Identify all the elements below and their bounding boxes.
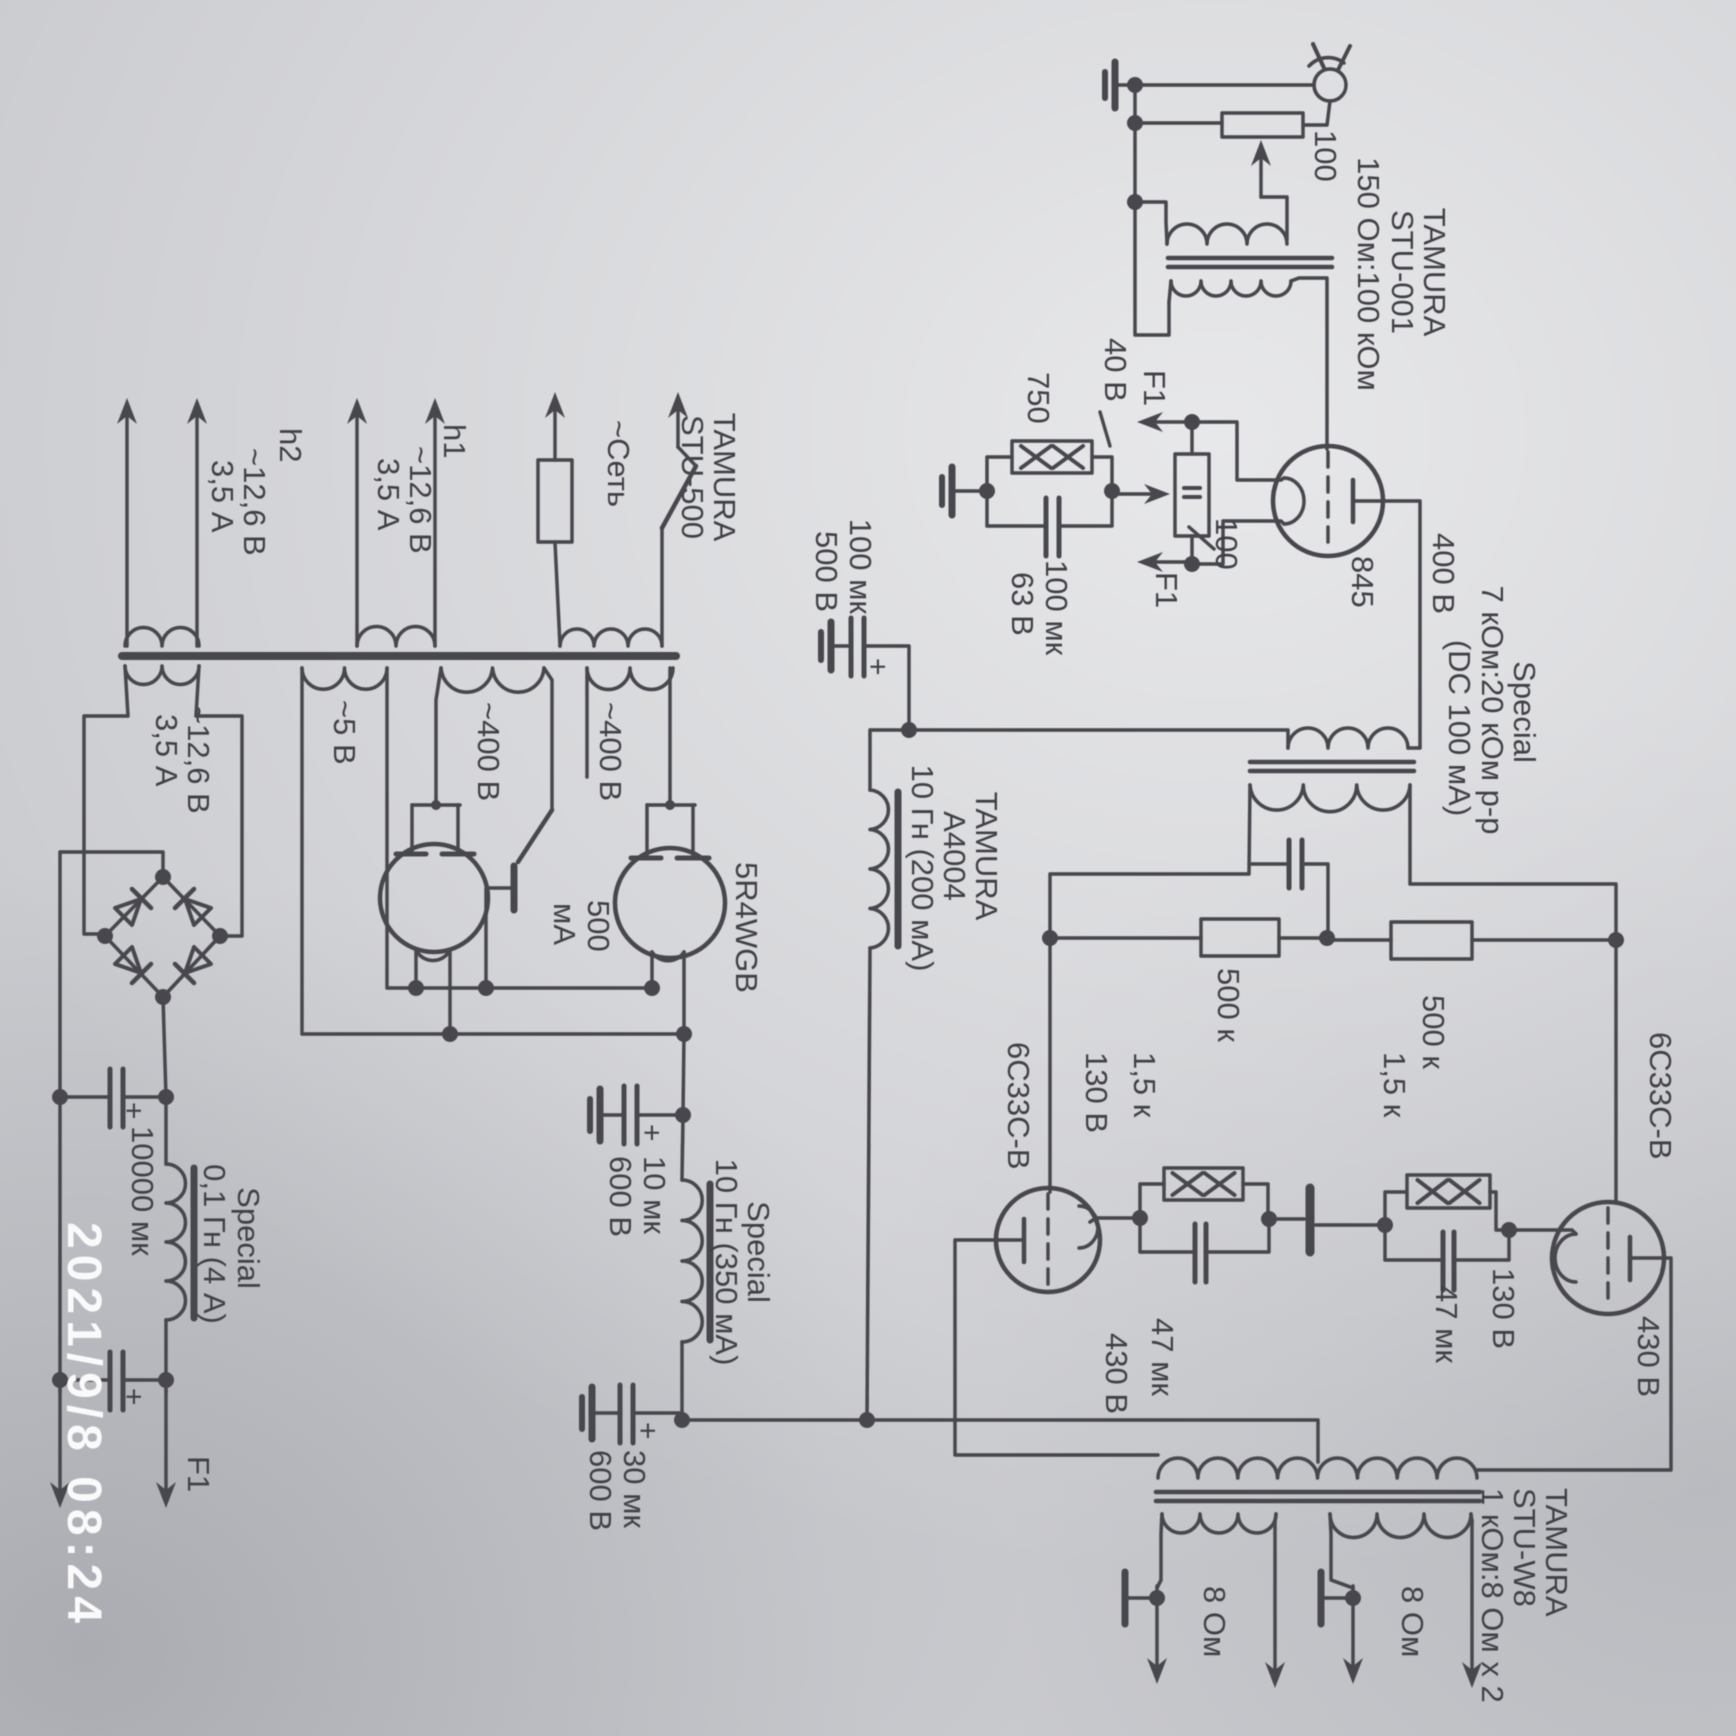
845 cathode bias network node <box>1104 483 1120 499</box>
bridge rectifier diamond <box>105 877 220 997</box>
label 100 (hum pot) with leader <box>1189 527 1214 549</box>
T3 primary winding <box>1158 1458 1477 1478</box>
capacitor 10uF 600V <box>637 1113 683 1117</box>
V5 plates <box>677 856 709 861</box>
svg-text:130 В: 130 В <box>1079 1052 1114 1133</box>
svg-text:TAMURA: TAMURA <box>707 413 742 542</box>
power transformer T4 TAMURA STU-500 core <box>122 652 676 660</box>
V2 anode <box>1628 1237 1633 1280</box>
V2 cathode <box>1555 1234 1576 1282</box>
input transformer T1 TAMURA STU-001 core <box>1168 256 1332 261</box>
cathode resistor 1.5k (V3) <box>1140 1184 1164 1218</box>
output tube V2 6C33C-B (upper) <box>1552 1202 1664 1314</box>
svg-text:8 Ом: 8 Ом <box>1395 1586 1430 1657</box>
HV select switch <box>585 668 589 777</box>
cathode resistor 1.5k (V2) <box>1490 1192 1509 1230</box>
wire V3 anode to OT primary bottom <box>955 1240 1158 1455</box>
cathode capacitor 47uF (V2) <box>1385 1225 1443 1260</box>
V4 plates <box>442 852 474 857</box>
ground (B+ cap) <box>832 644 851 648</box>
choke L1 TAMURA A4004 <box>870 730 909 790</box>
svg-text:30 мк: 30 мк <box>617 1450 652 1528</box>
svg-text:+: + <box>117 1102 150 1120</box>
bridge diode D4 <box>115 899 141 925</box>
svg-text:8 Ом: 8 Ом <box>1197 1586 1232 1657</box>
cathode capacitor 47uF (V3) <box>1140 1218 1195 1252</box>
T4 5V rectifier filament winding <box>302 668 387 689</box>
T4 12.6V winding (845 filament bridge) <box>125 666 199 685</box>
V5 filament <box>652 952 684 961</box>
svg-text:~5 В: ~5 В <box>327 700 362 765</box>
output return secondary A <box>1157 1514 1162 1588</box>
svg-text:63 В: 63 В <box>1005 572 1040 636</box>
mains switch <box>660 528 664 646</box>
svg-text:100 мк: 100 мк <box>843 519 878 615</box>
T4 HV secondary 1 ~400V <box>587 668 673 690</box>
svg-text:+: + <box>861 658 894 676</box>
svg-text:+: + <box>631 1422 664 1440</box>
capacitor (second filter) <box>123 1378 166 1382</box>
T4 heater winding h1 <box>357 627 435 647</box>
svg-text:Special: Special <box>231 1187 266 1289</box>
T3 secondary A (lower) <box>1162 1514 1276 1533</box>
T4 heater winding h2 <box>125 628 199 647</box>
V4 filament legs to buses <box>448 950 452 1034</box>
svg-text:~400 В: ~400 В <box>471 702 506 801</box>
capacitor 100uF 500V <box>864 646 909 730</box>
ground (input common) <box>1116 83 1135 87</box>
T3 secondary B (upper) <box>1330 1514 1471 1538</box>
svg-text:1 кОм:8 Ом х 2: 1 кОм:8 Ом х 2 <box>1475 1488 1510 1703</box>
F1 filament supply arrow (right) <box>1143 560 1192 564</box>
svg-text:7 кОм:20 кОм р-р: 7 кОм:20 кОм р-р <box>1475 586 1510 835</box>
wire V1 anode to interstage primary <box>1384 501 1420 748</box>
T1 secondary winding <box>1171 281 1291 296</box>
wire jack to volume pot <box>1303 101 1330 125</box>
bridge rectifier wires from winding <box>196 666 242 936</box>
V3 cathode lead <box>1090 1218 1140 1222</box>
V4 plate feed from winding <box>436 668 441 805</box>
ground (secondary B) <box>1324 1596 1353 1600</box>
svg-text:~12,6 В: ~12,6 В <box>181 706 216 814</box>
T4 mains primary winding <box>560 629 662 646</box>
common bus wire <box>1135 85 1314 335</box>
svg-text:600 В: 600 В <box>583 1450 618 1531</box>
bridge diode D1 <box>185 947 211 973</box>
ground (30uF) <box>589 1387 596 1439</box>
choke L2 Special 10Gn 350mA <box>682 1180 702 1342</box>
V1 filament <box>1284 478 1304 524</box>
svg-text:600 В: 600 В <box>603 1156 638 1237</box>
V5 filament leg to bus A <box>650 952 654 988</box>
wire pot bottom to common bus <box>1135 121 1222 125</box>
svg-text:430 В: 430 В <box>1631 1316 1666 1397</box>
svg-text:STU-W8: STU-W8 <box>1507 1488 1542 1607</box>
node X dot <box>1319 930 1335 946</box>
svg-text:750: 750 <box>1021 372 1056 424</box>
svg-text:100: 100 <box>1209 518 1244 570</box>
svg-text:6С33С-В: 6С33С-В <box>1643 1032 1678 1160</box>
svg-text:мА: мА <box>547 903 582 945</box>
svg-text:430 В: 430 В <box>1099 1333 1134 1414</box>
svg-text:500 В: 500 В <box>809 531 844 612</box>
wire T2 primary bottom to B+ node <box>909 730 1288 748</box>
T2 secondary bottom lead / tube2 grid wire <box>1050 785 1250 1192</box>
svg-text:STU-001: STU-001 <box>1385 210 1420 334</box>
T1 primary winding <box>1167 224 1287 244</box>
resistor 750 (wirewound) <box>1092 457 1112 491</box>
bridge DC+ to upper rail <box>163 997 166 1097</box>
svg-text:500 к: 500 к <box>1211 968 1246 1042</box>
svg-text:400 В: 400 В <box>1426 533 1461 614</box>
volume pot 100k R1 <box>1222 113 1303 137</box>
V3 cathode <box>1079 1206 1098 1248</box>
wire T1 secondary bottom to bus <box>1169 281 1171 302</box>
ground (10uF) <box>597 1089 604 1141</box>
shared ground bar <box>1306 1188 1315 1252</box>
V2 cathode lead <box>1509 1230 1576 1234</box>
svg-text:h2: h2 <box>273 428 308 462</box>
svg-text:100 мк: 100 мк <box>1039 560 1074 656</box>
T2 secondary winding <box>1250 785 1410 812</box>
output return secondary B <box>1330 1514 1353 1588</box>
V1 grid (dashed) <box>1326 452 1330 551</box>
output arrow secondary B hot (8 Om) <box>1471 1514 1472 1522</box>
svg-text:500: 500 <box>581 900 616 952</box>
ground (secondary A) <box>1128 1596 1157 1600</box>
T3 primary center tap to B+ <box>682 1420 1318 1462</box>
ground (845 cathode network) <box>954 489 987 493</box>
V1 filament left leg <box>1192 422 1284 480</box>
svg-text:40 В: 40 В <box>1098 338 1133 402</box>
pot wiper arrow <box>1259 146 1263 197</box>
845 driver tube V1 <box>1273 446 1383 556</box>
svg-text:Special: Special <box>1507 661 1542 763</box>
svg-text:3,5 А: 3,5 А <box>205 460 240 533</box>
capacitor 30uF 600V <box>633 1411 682 1415</box>
svg-text:h1: h1 <box>437 424 472 458</box>
svg-text:0,1 Гн (4 А): 0,1 Гн (4 А) <box>197 1164 232 1324</box>
output tube V3 6C33C-B (lower) <box>996 1188 1100 1292</box>
svg-text:1,5 к: 1,5 к <box>1377 1052 1412 1118</box>
V3 anode <box>1022 1219 1027 1262</box>
grid coupling capacitor <box>1300 840 1305 888</box>
wire T1 primary bottom to bus <box>1135 202 1167 244</box>
svg-text:10 Гн (200 мА): 10 Гн (200 мА) <box>905 765 940 972</box>
V4 filament <box>416 950 450 961</box>
V5 cathode B+ run <box>682 952 684 1180</box>
bridge diode D3 <box>185 899 211 925</box>
V5 plate feed from winding <box>668 668 672 805</box>
output transformer T3 TAMURA STU-W8 core <box>1156 1490 1480 1495</box>
svg-text:F1: F1 <box>181 1456 216 1492</box>
svg-text:F1: F1 <box>1149 572 1184 608</box>
input RCA jack J1 <box>1314 69 1346 101</box>
wire T1 secondary top to 845 grid <box>1291 278 1327 449</box>
bridge DC- to lower rail <box>60 852 163 1097</box>
filament bus B <box>302 668 684 1034</box>
svg-text:100: 100 <box>1308 130 1343 182</box>
T2 secondary top lead to grid node Y <box>1410 785 1616 937</box>
svg-text:(DC 100 мА): (DC 100 мА) <box>1442 640 1477 816</box>
hum balance pot 100 <box>1175 454 1209 536</box>
V1 filament right leg <box>1192 521 1284 564</box>
svg-text:~12,6 В: ~12,6 В <box>403 446 438 554</box>
ground stub (V3 network) <box>1269 1217 1304 1221</box>
svg-text:~Сеть: ~Сеть <box>601 420 636 507</box>
bridge diode D2 <box>115 947 141 973</box>
svg-text:130 В: 130 В <box>1486 1268 1521 1349</box>
svg-text:TAMURA: TAMURA <box>969 792 1004 921</box>
svg-text:3,5 А: 3,5 А <box>371 458 406 531</box>
svg-text:TAMURA: TAMURA <box>1539 1488 1574 1617</box>
B+ node dot <box>901 722 917 738</box>
output arrow secondary A hot (8 Om) <box>1275 1514 1276 1522</box>
rectifier tube V5 5R4WGB <box>615 848 725 958</box>
svg-text:Special: Special <box>741 1201 776 1303</box>
svg-text:150 Ом:100 кОм: 150 Ом:100 кОм <box>1351 157 1386 391</box>
svg-text:47 мк: 47 мк <box>1429 1285 1464 1363</box>
T4 HV secondary 2 ~400V <box>441 668 544 692</box>
svg-text:А4004: А4004 <box>937 811 972 901</box>
V1 anode <box>1351 480 1356 522</box>
svg-text:10 мк: 10 мк <box>637 1156 672 1234</box>
svg-text:6С33С-В: 6С33С-В <box>1001 1042 1036 1170</box>
svg-text:3,5 А: 3,5 А <box>149 714 184 787</box>
shared ground stub (V2 network) <box>1316 1223 1385 1227</box>
wires to hum pot ends <box>1190 422 1194 454</box>
svg-text:10000 мк: 10000 мк <box>125 1126 160 1256</box>
rectifier tube V4 (400V) <box>380 844 488 952</box>
F1 lower rail <box>58 1097 62 1392</box>
capacitor 10000uF <box>123 1095 166 1099</box>
grid resistor 500k (B) <box>1391 922 1472 959</box>
svg-text:47 мк: 47 мк <box>1145 1318 1180 1396</box>
wire V2 anode to OT primary top <box>1477 1258 1671 1470</box>
svg-text:~12,6 В: ~12,6 В <box>237 448 272 556</box>
svg-text:500 к: 500 к <box>1416 995 1451 1069</box>
svg-text:5R4WGB: 5R4WGB <box>729 862 764 993</box>
svg-text:845: 845 <box>1345 556 1380 608</box>
svg-text:~400 В: ~400 В <box>593 702 628 801</box>
svg-text:TAMURA: TAMURA <box>1417 208 1452 337</box>
svg-text:+: + <box>117 1388 150 1406</box>
svg-text:1,5 к: 1,5 к <box>1127 1052 1162 1118</box>
grid resistor 500k (A) <box>1279 936 1327 940</box>
svg-text:F1: F1 <box>1137 370 1172 406</box>
F1 filament supply arrow (left) <box>1143 420 1192 424</box>
svg-text:+: + <box>635 1124 668 1142</box>
svg-text:2021/9/8 08:24: 2021/9/8 08:24 <box>57 1222 110 1629</box>
T2 primary winding <box>1288 728 1408 748</box>
filament bus A <box>387 668 652 988</box>
V2 grid wire <box>1614 940 1618 1203</box>
F1 upper rail with choke 0.1Gn <box>164 1097 168 1164</box>
interstage transformer T2 Special 7k:20k core <box>1250 760 1414 765</box>
capacitor 100uF 63V <box>1059 491 1112 526</box>
mains fuse <box>555 542 560 646</box>
hum pot wiper arrow <box>1114 492 1164 496</box>
svg-text:10 Гн (350 мА): 10 Гн (350 мА) <box>709 1159 744 1366</box>
